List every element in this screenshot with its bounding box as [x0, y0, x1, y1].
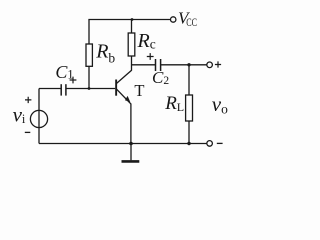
wire C2 to output [161, 64, 207, 66]
terminal output minus [207, 141, 213, 147]
svg-text:Rc: Rc [137, 30, 156, 52]
node RL top junction [187, 63, 190, 66]
wire base [66, 88, 115, 90]
wire Rb bottom lead [88, 66, 90, 88]
capacitor C2 plates [155, 59, 157, 71]
capacitor C1 plates [60, 84, 62, 95]
node Rc tap on rail [131, 18, 134, 21]
source vi circle [30, 110, 47, 127]
resistor R3 RL body [186, 95, 193, 121]
node base junction [88, 87, 91, 90]
svg-text:Rb: Rb [95, 41, 115, 66]
label plus of C2 [147, 53, 154, 60]
wire vi vertical [38, 89, 40, 144]
transistor Q1 collector stroke [117, 70, 132, 83]
node RL bottom junction [187, 142, 190, 145]
transistor Q1 base bar [115, 80, 117, 96]
wire top rail [88, 19, 170, 21]
label plus of output [215, 61, 221, 67]
label plus of C1 [70, 77, 77, 84]
transistor Q1 emitter stroke [117, 89, 131, 104]
wire collector to C2 [132, 64, 156, 66]
resistor R1 Rb body [86, 44, 92, 66]
svg-text:VCC: VCC [178, 9, 197, 29]
node emitter ground junction [129, 142, 133, 146]
ground [130, 144, 132, 161]
transistor Q1 emitter arrow [125, 96, 130, 102]
svg-text:C2: C2 [152, 68, 169, 87]
wire RL bottom lead [188, 121, 190, 144]
svg-text:RL: RL [164, 93, 184, 114]
wire emitter down [130, 104, 132, 144]
terminal VCC [171, 17, 176, 22]
wire bottom rail [39, 143, 207, 145]
terminal output plus [207, 62, 213, 68]
wire Rb top lead [88, 20, 90, 45]
resistor R2 Rc body [128, 33, 135, 56]
svg-text:C1: C1 [55, 62, 73, 82]
svg-text:vi: vi [13, 102, 26, 126]
wire Rc top lead [131, 20, 133, 34]
label minus of output [217, 142, 223, 144]
label plus of vi [25, 97, 31, 103]
svg-text:vo: vo [212, 92, 228, 117]
label minus of vi [25, 131, 31, 133]
wire Rc bottom lead to collector [131, 56, 133, 71]
wire input to C1 [39, 88, 61, 90]
svg-text:T: T [134, 81, 144, 100]
wire RL top lead [188, 65, 190, 95]
